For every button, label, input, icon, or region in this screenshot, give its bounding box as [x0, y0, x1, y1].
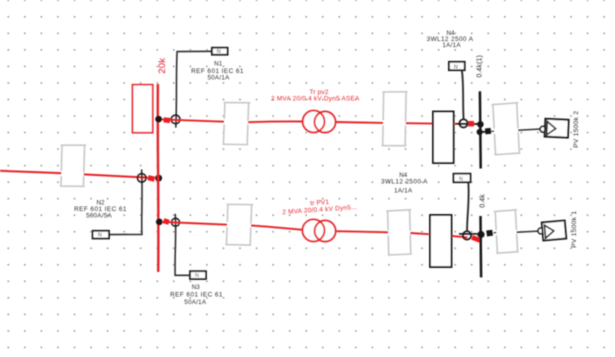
relay N4 label (top)	[427, 30, 474, 49]
wire: CT to relay N4 (top)	[462, 70, 464, 119]
wire: tr PV1 to LV cabinet 2	[337, 231, 429, 234]
svg-text:500A/5A: 500A/5A	[86, 212, 112, 219]
svg-text:1A/1A: 1A/1A	[394, 188, 413, 195]
svg-text:0.4k(1): 0.4k(1)	[477, 55, 484, 78]
label 0.4k(1)	[477, 55, 484, 78]
busbar 20k (red)	[157, 84, 160, 272]
relay N3 box	[190, 271, 206, 279]
junction: PV tap on 0.4k(1) bus	[477, 129, 483, 135]
relay N3 label	[170, 284, 223, 306]
current transformer CT (relay N4 mid)	[463, 231, 471, 239]
wire: cabinet 2 to 0.4k bus (red)	[452, 234, 478, 238]
svg-text:N3: N3	[192, 284, 201, 291]
label 20k	[157, 58, 168, 74]
junction: feeder 2 on 20k bus	[156, 219, 163, 226]
svg-text:N1: N1	[214, 61, 223, 68]
relay N1 label	[191, 61, 244, 82]
busbar 0.4k	[479, 216, 482, 277]
label PV 1500k 1	[571, 211, 578, 248]
breaker closed dash (LV 2, slanted)	[472, 237, 481, 241]
junction: incoming feeder on 20k bus	[155, 175, 162, 182]
PV inverter PV 1500k 1	[542, 221, 566, 241]
breaker closed dash (incoming)	[148, 178, 154, 180]
fuse (grey) feeder 1 MV	[223, 102, 250, 145]
LV cabinet feeder 2 (black)	[430, 215, 452, 267]
junction: feeder 1 on 20k bus	[155, 116, 162, 123]
disconnector fuse (grey) on incoming feeder	[60, 145, 85, 187]
current transformer CT (relay N2)	[137, 174, 146, 183]
relay N4 box (mid)	[454, 174, 471, 183]
svg-text:REF 601 IEC 61: REF 601 IEC 61	[170, 291, 223, 298]
junction: feeder 2 on 0.4k bus	[477, 231, 484, 238]
wire: cabinet 1 to 0.4k(1) bus	[456, 123, 478, 125]
svg-text:N: N	[98, 233, 102, 239]
fuse (grey) feeder 2 MV	[226, 204, 253, 246]
external grid box (red)	[133, 85, 153, 133]
svg-text:1A/1A: 1A/1A	[442, 42, 461, 49]
current transformer CT (relay N4 top)	[459, 119, 467, 127]
svg-text:PV 1500k 1: PV 1500k 1	[571, 211, 578, 248]
connector square (PV1)	[486, 230, 493, 237]
wire: connector to fuse (PV1)	[493, 232, 496, 234]
svg-text:N: N	[217, 49, 221, 55]
transformer tr PV1	[303, 219, 336, 241]
wire: 20k bus to tr PV1	[162, 222, 303, 230]
current transformer CT (relay N1)	[171, 115, 180, 124]
busbar 0.4k(1)	[479, 91, 482, 168]
fuse (grey) PV2	[492, 103, 520, 155]
wire: tap to connector (PV2)	[483, 131, 487, 133]
svg-text:N: N	[459, 176, 463, 182]
breaker closed dash (LV 1)	[468, 121, 474, 126]
wire: fuse to inverter PV1	[517, 231, 538, 232]
connector square (PV2)	[485, 128, 491, 134]
breaker closed dash (feeder 2)	[164, 221, 169, 223]
label tr PV1	[282, 197, 358, 216]
relay N4 box (top)	[449, 62, 465, 71]
relay N2 label	[74, 200, 127, 220]
LV cabinet feeder 1 (black)	[433, 112, 454, 164]
wire: fuse to inverter PV2	[518, 129, 540, 130]
junction: feeder 1 on 0.4k(1) bus	[477, 121, 484, 128]
svg-text:N: N	[195, 273, 199, 279]
fuse (grey) feeder 2 LV	[387, 210, 412, 255]
label Tr pv2	[271, 89, 360, 103]
wire: 20k bus to Tr pv2	[162, 119, 303, 122]
svg-text:PV 1500k 2: PV 1500k 2	[573, 111, 580, 148]
wire: CT to relay N3	[175, 214, 190, 275]
wire: Tr pv2 to LV cabinet 2	[336, 122, 433, 124]
wire: incoming 20kV feeder from left	[0, 171, 148, 178]
terminal circle PV2	[540, 126, 546, 132]
relay N1 box	[212, 48, 228, 55]
label 0.4k	[479, 194, 486, 208]
wire: CT to relay N1	[176, 51, 212, 127]
red stub at cabinet 1	[454, 123, 456, 125]
PV inverter PV 1500k 2	[545, 119, 569, 138]
relay N4 label (mid)	[381, 172, 428, 195]
wire: connector to fuse (PV2)	[491, 130, 494, 132]
transformer Tr pv2	[303, 111, 336, 133]
terminal circle PV1	[538, 228, 544, 234]
svg-text:N: N	[454, 64, 458, 70]
breaker closed dash (feeder 1)	[164, 117, 170, 123]
wire: CT to relay N2	[109, 169, 142, 234]
svg-text:3WL12 2500 A: 3WL12 2500 A	[381, 178, 428, 185]
label PV 1500k 2	[573, 111, 580, 148]
fuse (grey) PV1	[494, 210, 518, 253]
relay N2 box	[93, 231, 109, 239]
svg-text:0.4k: 0.4k	[479, 194, 486, 208]
svg-text:50A/1A: 50A/1A	[184, 299, 207, 306]
svg-text:20k: 20k	[157, 58, 168, 74]
fuse (grey) feeder 1 LV	[382, 91, 407, 146]
wire: CT to relay N4 (mid)	[467, 182, 469, 231]
svg-text:50A/1A: 50A/1A	[207, 75, 230, 82]
svg-text:2 MVA 20/0.4 kV Dyn5 ASEA: 2 MVA 20/0.4 kV Dyn5 ASEA	[271, 96, 360, 103]
current transformer CT (relay N3)	[172, 218, 180, 226]
